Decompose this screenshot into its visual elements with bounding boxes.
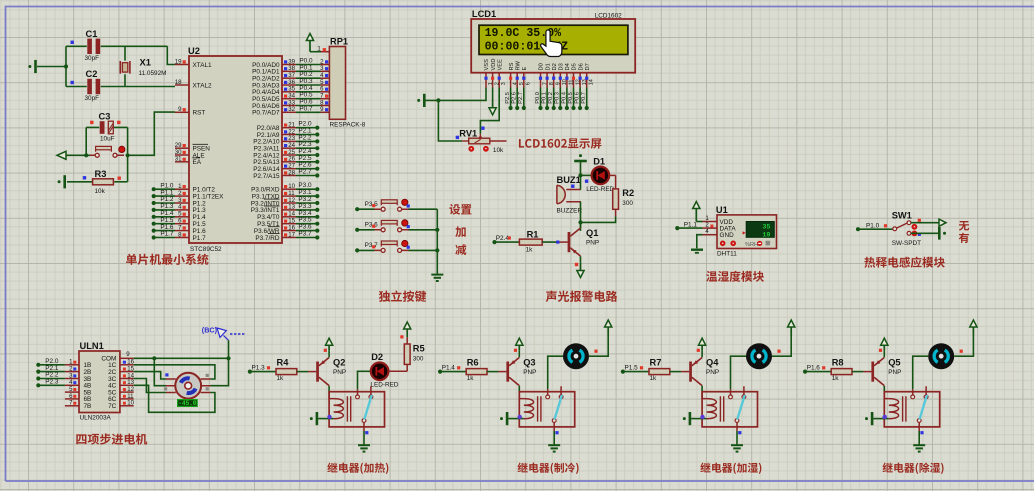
wire ground to node	[580, 161, 582, 175]
svg-text:E: E	[522, 67, 528, 71]
capacitor C1 30pF	[66, 39, 167, 54]
svg-text:U1: U1	[716, 205, 728, 215]
DHT11 adjust buttons	[720, 241, 770, 248]
svg-text:10k: 10k	[493, 147, 504, 154]
wire throw1 to power arrow right	[911, 222, 939, 224]
svg-text:P3.5: P3.5	[365, 201, 379, 208]
svg-text:GND: GND	[720, 232, 735, 239]
svg-text:P1.4: P1.4	[442, 364, 456, 371]
buzzer BUZ1	[557, 185, 581, 204]
ground (crystal caps common)	[28, 60, 35, 73]
ground right of SW1	[939, 227, 946, 240]
transistor Q3 PNP	[506, 358, 519, 386]
svg-text:Q4: Q4	[706, 357, 719, 367]
DHT11 pin 1 VDD	[703, 221, 718, 223]
wire LCD net P0.4	[566, 88, 568, 109]
U2 pin 19 XTAL1	[175, 64, 189, 66]
ULN1 pin 10 7C	[120, 405, 134, 407]
wire C3 left leg	[85, 127, 87, 155]
ground at relay coil	[310, 412, 317, 425]
U2 pin 1 P1.0 with net stub	[152, 187, 156, 191]
power arrow down at LCD VDD	[492, 88, 494, 101]
wire COM to motor right center	[211, 358, 229, 385]
transistor Q2 PNP	[316, 358, 329, 386]
svg-text:R1: R1	[527, 230, 539, 240]
svg-text:14: 14	[589, 79, 595, 85]
svg-text:P1.7: P1.7	[193, 235, 207, 242]
wire LCD net P0.0	[540, 88, 542, 109]
relay box	[702, 392, 757, 427]
svg-text:17: 17	[288, 231, 295, 238]
ULN1 pin 3 3B	[65, 378, 79, 380]
svg-text:SW1: SW1	[892, 210, 912, 220]
mouse hand cursor	[541, 30, 562, 57]
caption sound-light alarm	[546, 291, 618, 302]
reset net arrow	[57, 151, 66, 159]
wire LCD net P2.5	[510, 88, 512, 109]
svg-text:XTAL2: XTAL2	[193, 82, 213, 89]
U2 pin 4 P1.3 with net stub	[152, 208, 156, 212]
svg-text:P1.0: P1.0	[866, 222, 880, 229]
caption MCU minimal system	[126, 254, 208, 265]
svg-text:BUZZER: BUZZER	[557, 207, 583, 214]
svg-text:30pF: 30pF	[85, 95, 100, 102]
svg-text:P0.4: P0.4	[561, 92, 567, 104]
svg-text:D7: D7	[585, 63, 591, 70]
svg-text:P0.7: P0.7	[299, 105, 313, 112]
buttons common bus wire	[436, 209, 438, 274]
transistor Q1 PNP	[568, 228, 581, 256]
wire 1C to motor	[134, 365, 215, 379]
resistor R2 300	[613, 189, 619, 209]
svg-text:BUZ1: BUZ1	[557, 175, 581, 185]
svg-text:D2: D2	[552, 63, 558, 70]
svg-text:P0.7/AD7: P0.7/AD7	[252, 110, 280, 117]
resistor R8 1k	[831, 369, 852, 375]
svg-text:P2.3: P2.3	[45, 379, 59, 386]
wire GND to ground	[697, 235, 703, 249]
wire 4C to motor	[134, 385, 215, 412]
net P1.5 wire	[621, 370, 625, 374]
svg-text:D6: D6	[578, 63, 584, 70]
svg-text:RV1: RV1	[459, 129, 477, 139]
svg-text:18: 18	[175, 79, 182, 86]
resistor R3 10k	[67, 181, 92, 183]
svg-text:Q2: Q2	[333, 357, 345, 367]
caption temperature-humidity module	[706, 271, 764, 282]
resistor pack RP1 RESPACK-8 body	[329, 47, 345, 120]
motor angle readout	[178, 400, 198, 408]
svg-text:P1.5: P1.5	[625, 364, 639, 371]
wire ground to coil	[508, 418, 524, 420]
wire LCD VEE to RV1 wiper	[480, 88, 499, 134]
ULN1 pin 11 6C	[120, 398, 134, 400]
svg-text:P0.7: P0.7	[581, 92, 587, 104]
wire LCD net P0.5	[573, 88, 575, 109]
wire Q2 emitter to power	[328, 351, 330, 358]
svg-text:P2.6: P2.6	[512, 92, 518, 104]
power +5V arrow at fan	[605, 320, 612, 336]
U2 pin 3 P1.2 with net stub	[152, 201, 156, 205]
DHT11 display readout	[743, 222, 775, 240]
push button P3.6	[355, 228, 359, 232]
wire LCD net P2.7	[523, 88, 525, 109]
ground at DHT11	[691, 250, 703, 253]
ULN1 pin 15 2C	[120, 371, 134, 373]
wire LCD net P2.6	[516, 88, 518, 109]
wire LCD net P0.3	[559, 88, 561, 109]
wire Q4 emitter to power	[701, 351, 703, 358]
wire to reset arrow	[66, 154, 90, 156]
relay contact and switch blade	[911, 386, 928, 431]
svg-text:PNP: PNP	[333, 369, 346, 376]
wire R3 to RST	[128, 112, 175, 182]
svg-text:R8: R8	[832, 358, 844, 368]
LCD screen with text	[479, 25, 628, 54]
svg-text:Q3: Q3	[523, 357, 535, 367]
svg-text:P2.7: P2.7	[518, 92, 524, 104]
caption independent keys	[379, 290, 426, 302]
DHT11 pin 2 DATA	[703, 227, 718, 229]
relay coil	[519, 392, 541, 422]
svg-text:ULN2003A: ULN2003A	[80, 415, 112, 422]
power arrow down at Q1	[577, 263, 584, 278]
net P2.1 wire to ULN	[36, 370, 40, 374]
wire fan to power	[772, 336, 791, 356]
wire LCD net P0.1	[546, 88, 548, 109]
ULN1 pin 9 COM	[120, 357, 134, 359]
svg-text:RP1: RP1	[330, 37, 348, 47]
svg-text:RW: RW	[515, 60, 521, 70]
resistor R7 1k	[649, 369, 670, 375]
relay contact and switch blade	[729, 386, 746, 431]
resistor R4 1k	[276, 369, 297, 375]
node junction at caps	[65, 46, 67, 86]
svg-text:19: 19	[762, 231, 770, 239]
wire relay common to earth	[363, 431, 365, 445]
svg-text:32: 32	[288, 106, 295, 113]
RP1 pin 1 to power	[321, 51, 329, 53]
wire relay contact to fan	[548, 356, 563, 389]
svg-text:C2: C2	[86, 69, 98, 79]
wire relay common to earth	[918, 431, 920, 445]
ULN1 pin 6 6B	[65, 398, 79, 400]
svg-text:1k: 1k	[277, 375, 285, 382]
wire button to bus	[409, 208, 438, 210]
svg-text:Q1: Q1	[586, 228, 598, 238]
earth ground under relay	[913, 445, 925, 451]
svg-text:LED-RED: LED-RED	[586, 186, 614, 193]
caption LCD1602 display	[519, 138, 601, 148]
svg-text:19: 19	[175, 58, 182, 65]
wire XTAL1	[167, 46, 175, 64]
caption 继电器(除湿)	[883, 462, 944, 473]
wire fan to power	[954, 336, 973, 356]
svg-text:1k: 1k	[650, 375, 658, 382]
switch SW1 SW-SPDT	[893, 221, 911, 235]
ground at relay coil	[500, 412, 507, 425]
svg-text:P3.6: P3.6	[365, 222, 379, 229]
svg-text:P0.5: P0.5	[568, 92, 574, 104]
crystal X1 11.0592M	[120, 46, 130, 86]
resistor R1 1k	[492, 240, 496, 244]
svg-text:R5: R5	[413, 344, 425, 354]
svg-text:R6: R6	[467, 358, 479, 368]
wire LCD net P0.2	[553, 88, 555, 109]
svg-text:P1.6: P1.6	[807, 364, 821, 371]
wire Q2 collector to relay	[328, 386, 330, 392]
svg-text:P2.7/A15: P2.7/A15	[253, 173, 280, 180]
earth ground under relay	[731, 445, 743, 451]
wire 2C to motor	[134, 372, 166, 379]
wire Q3 collector to relay	[518, 386, 520, 392]
wire	[37, 66, 66, 68]
capacitor C2 30pF	[66, 79, 175, 94]
svg-text:1k: 1k	[526, 247, 534, 254]
svg-text:10: 10	[127, 400, 134, 407]
svg-text:PNP: PNP	[523, 369, 536, 376]
wire relay contact to fan	[913, 356, 929, 389]
relay box	[884, 392, 939, 427]
svg-text:C3: C3	[99, 112, 111, 122]
svg-text:C1: C1	[86, 29, 98, 39]
U2 pin 18 XTAL2	[175, 84, 189, 86]
LED D1 LED-RED	[581, 174, 592, 176]
potentiometer RV1 10k	[462, 134, 507, 144]
ULN1 pin 12 5C	[120, 391, 134, 393]
ULN1 pin 2 2B	[65, 371, 79, 373]
svg-text:VSS: VSS	[484, 59, 490, 71]
transistor Q4 PNP	[689, 358, 702, 386]
reset button	[90, 146, 125, 157]
wire Q5 collector to relay	[883, 386, 885, 392]
earth ground under relay	[358, 445, 370, 451]
DHT11 pin 4 GND	[703, 234, 718, 236]
svg-text:X1: X1	[140, 58, 151, 68]
svg-text:SW-SPDT: SW-SPDT	[892, 240, 921, 247]
svg-text:P2.4: P2.4	[496, 235, 510, 242]
net P1.6 wire	[803, 370, 807, 374]
svg-text:R7: R7	[650, 358, 662, 368]
svg-text:D0: D0	[539, 63, 545, 70]
svg-text:300: 300	[622, 200, 633, 207]
svg-text:1k: 1k	[832, 375, 840, 382]
ULN1 pin 5 5B	[65, 391, 79, 393]
relay coil	[884, 392, 906, 422]
power arrow at DHT11	[693, 202, 700, 222]
svg-text:P1.7: P1.7	[160, 231, 174, 238]
svg-text:ULN1: ULN1	[80, 341, 104, 351]
wire probe to COM	[228, 340, 230, 358]
svg-text:35: 35	[762, 224, 770, 232]
svg-text:VDD: VDD	[491, 58, 497, 70]
U2 pin 30 ALE	[175, 154, 189, 156]
svg-text:P3.7: P3.7	[298, 231, 312, 238]
svg-text:LCD1: LCD1	[472, 9, 496, 19]
wire Q1 collector	[580, 222, 582, 228]
caption minus	[455, 244, 466, 255]
ULN1 pin 16 1C	[120, 364, 134, 366]
svg-text:P0.3: P0.3	[555, 92, 561, 104]
svg-text:P0.6: P0.6	[575, 92, 581, 104]
push button P3.5	[355, 207, 359, 211]
wire LCD net P0.7	[586, 88, 588, 109]
ULN1 pin 1 1B	[65, 364, 79, 366]
caption none	[959, 221, 969, 231]
wire 3C to motor	[134, 379, 166, 393]
stepper motor	[166, 373, 211, 399]
U2 pin 5 P1.4 with net stub	[152, 215, 156, 219]
relay box	[329, 392, 384, 427]
wire R1 to base	[542, 241, 559, 243]
wire relay common to earth	[736, 431, 738, 445]
wire ground to coil	[873, 418, 889, 420]
wire Q3 emitter to power	[518, 351, 520, 358]
svg-text:PNP: PNP	[706, 369, 719, 376]
power +5V arrow at fan	[970, 320, 977, 336]
caption 继电器(加湿)	[700, 463, 761, 474]
caption set	[449, 204, 471, 215]
fan motor	[928, 343, 954, 369]
wire R2 bottom	[615, 209, 617, 216]
net P1.1 wire	[675, 226, 679, 230]
ULN1 pin 14 3C	[120, 378, 134, 380]
wire relay common to earth	[553, 431, 555, 445]
power +5V arrow at Q4	[699, 338, 706, 351]
ground above alarm	[574, 154, 587, 161]
svg-text:DHT11: DHT11	[717, 250, 737, 257]
ground at relay coil	[865, 412, 872, 425]
wire D2 to R5	[388, 370, 407, 372]
svg-text:P1.1: P1.1	[684, 221, 698, 228]
wire buzzer bottom to collector node	[580, 202, 582, 231]
relay box	[519, 392, 574, 427]
svg-text:LCD1602: LCD1602	[595, 13, 622, 20]
relay coil	[329, 392, 351, 422]
ground at R3	[58, 175, 65, 188]
wire buzzer top	[580, 175, 582, 189]
svg-text:RESPACK-8: RESPACK-8	[330, 122, 366, 129]
svg-text:R2: R2	[622, 188, 634, 198]
svg-text:P1.3: P1.3	[252, 364, 266, 371]
power +5V arrow at Q5	[881, 338, 888, 351]
net P1.3 wire	[248, 370, 252, 374]
svg-text:9: 9	[126, 351, 130, 358]
net P1.0 wire	[856, 227, 860, 231]
svg-text:7C: 7C	[108, 403, 117, 410]
probe BC	[202, 325, 246, 340]
svg-text:D5: D5	[572, 63, 578, 70]
RV1 adjust buttons	[468, 146, 488, 152]
svg-text:RS: RS	[509, 62, 515, 70]
wire Q4 collector to relay	[701, 386, 703, 392]
net P2.2 wire to ULN	[36, 376, 40, 380]
ground at relay coil	[683, 412, 690, 425]
U2 pin 31 EA	[175, 161, 189, 163]
wire relay contact to LED	[358, 371, 371, 389]
LCD1 LCD1602 display body	[471, 19, 635, 73]
svg-text:D3: D3	[559, 63, 565, 70]
earth ground buttons	[431, 275, 443, 281]
svg-text:VEE: VEE	[497, 59, 503, 71]
wire C3 right leg	[127, 127, 129, 155]
resistor R6 1k	[466, 369, 487, 375]
transistor Q5 PNP	[871, 358, 884, 386]
caption 继电器(制冷)	[518, 463, 579, 474]
svg-text:P2.5: P2.5	[505, 92, 511, 104]
svg-text:Q5: Q5	[888, 357, 900, 367]
svg-text:EA: EA	[193, 159, 202, 166]
svg-text:7B: 7B	[84, 403, 92, 410]
power +5V arrow at R5	[404, 322, 411, 331]
relay contact and switch blade	[546, 386, 563, 431]
net P2.3 wire to ULN	[36, 383, 40, 387]
resistor R5 300	[404, 344, 410, 364]
junction to RV1	[436, 98, 440, 102]
wire LCD VSS to ground	[426, 88, 487, 101]
svg-text:(BC): (BC)	[202, 325, 218, 334]
svg-text:28: 28	[288, 169, 295, 176]
wire R4 to base	[297, 371, 308, 373]
svg-text:6: 6	[526, 82, 532, 85]
relay coil	[702, 392, 724, 422]
svg-text:30pF: 30pF	[85, 55, 100, 62]
svg-text:D2: D2	[371, 352, 383, 362]
power +5V arrow at fan	[788, 320, 795, 336]
wire Q5 emitter to power	[883, 351, 885, 358]
U2 pin 7 P1.6 with net stub	[152, 229, 156, 233]
caption 继电器(加热)	[327, 463, 388, 474]
capacitor C3 10uF	[86, 121, 127, 134]
sensor U1 DHT11 body	[717, 215, 777, 249]
wire relay contact to fan	[731, 356, 747, 389]
svg-text:RST: RST	[193, 110, 206, 117]
net P1.4 wire	[438, 370, 442, 374]
svg-text:D1: D1	[593, 156, 605, 166]
svg-text:-45.0: -45.0	[178, 400, 196, 407]
LED D2 LED-RED	[371, 363, 389, 381]
svg-text:P0.2: P0.2	[548, 92, 554, 104]
svg-text:PNP: PNP	[586, 240, 599, 247]
fan motor	[746, 343, 772, 369]
wire LCD net P0.6	[579, 88, 581, 109]
ground at LCD VSS	[417, 94, 424, 107]
net P2.0 wire to ULN	[36, 363, 40, 367]
ULN1 pin 7 7B	[65, 405, 79, 407]
svg-text:U2: U2	[188, 46, 200, 56]
wire COM rail	[134, 357, 229, 359]
U2 pin 8 P1.7 with net stub	[152, 235, 156, 239]
wire button to bus	[409, 249, 438, 251]
svg-text:LED-RED: LED-RED	[370, 382, 398, 389]
wire R5 to power	[406, 337, 408, 344]
svg-text:XTAL1: XTAL1	[193, 62, 213, 69]
caption present	[959, 233, 969, 243]
wire fan to power	[589, 336, 608, 356]
wire D1 to R2	[609, 174, 615, 176]
wire COM to motor left center	[154, 358, 166, 385]
fan motor	[563, 343, 589, 369]
wire ground to coil	[318, 418, 334, 420]
svg-text:P2.7: P2.7	[298, 169, 312, 176]
caption PIR sensing module	[864, 257, 944, 268]
MCU U2 STC89C52 body	[189, 56, 282, 243]
relay contact and switch blade	[356, 386, 373, 431]
svg-text:4: 4	[705, 228, 709, 235]
svg-text:3: 3	[501, 82, 507, 85]
caption plus	[455, 226, 465, 237]
wire ground to coil	[691, 418, 707, 420]
